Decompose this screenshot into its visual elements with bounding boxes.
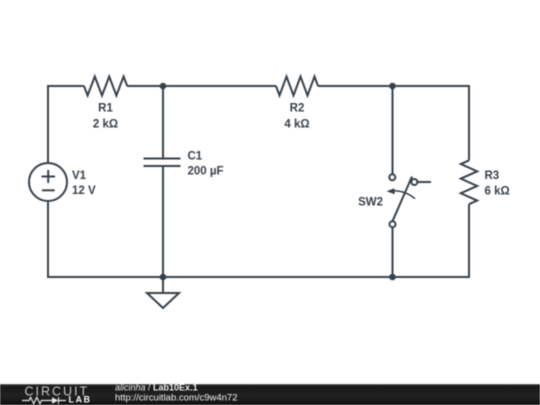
svg-text:R3: R3 <box>485 170 500 182</box>
svg-text:http://circuitlab.com/c9w4n72: http://circuitlab.com/c9w4n72 <box>115 392 238 403</box>
V1 plus sign <box>42 170 56 183</box>
wire R1 to R2 (through node A) <box>127 85 276 87</box>
svg-text:V1: V1 <box>72 170 87 182</box>
svg-text:C1: C1 <box>188 151 203 163</box>
bottom node dot at ground <box>160 274 167 281</box>
voltage source V1 <box>29 163 67 201</box>
switch SW2 pole contact (top) <box>389 174 395 180</box>
svg-text:2 kΩ: 2 kΩ <box>93 118 118 130</box>
footer bar <box>0 384 540 405</box>
resistor R2 <box>276 77 318 96</box>
capacitor C1 <box>144 159 181 167</box>
V1 minus sign <box>42 189 55 191</box>
ground <box>147 293 179 308</box>
svg-text:alicinha / Lab10Ex.1: alicinha / Lab10Ex.1 <box>115 382 198 392</box>
switch SW2 blade <box>393 177 413 222</box>
resistor R1 <box>84 77 127 96</box>
svg-text:4 kΩ: 4 kΩ <box>284 118 309 130</box>
svg-text:R2: R2 <box>290 103 305 115</box>
CircuitLab logo waveform <box>22 397 52 403</box>
svg-text:SW2: SW2 <box>358 197 383 209</box>
wire C1 to bottom wire <box>162 166 164 277</box>
switch SW2 arrow head <box>387 188 395 194</box>
wire switch to bottom wire <box>392 227 394 277</box>
wire node A down to C1 <box>162 86 164 159</box>
wire R3 to bottom-right corner <box>48 201 469 277</box>
node B junction dot <box>389 83 396 90</box>
resistor R3 <box>461 160 477 204</box>
svg-text:R1: R1 <box>98 103 113 115</box>
node A junction dot <box>160 83 167 90</box>
wire from right throw contact <box>417 181 431 183</box>
switch SW2 bottom contact <box>390 221 396 227</box>
svg-text:12 V: 12 V <box>72 185 96 197</box>
switch SW2 actuation arc <box>391 191 416 199</box>
ground stub <box>162 277 164 293</box>
svg-text:LAB: LAB <box>69 395 92 405</box>
CircuitLab logo diode <box>52 397 58 404</box>
bottom node dot at switch <box>389 274 396 281</box>
svg-text:200 µF: 200 µF <box>188 166 224 178</box>
wire top-left: V1 top to R1 <box>48 86 84 163</box>
wire R2 to top-right corner <box>318 86 469 160</box>
switch SW2 throw contact (right) <box>411 179 417 185</box>
svg-text:6 kΩ: 6 kΩ <box>485 185 510 197</box>
wire node B down to switch <box>392 86 394 174</box>
